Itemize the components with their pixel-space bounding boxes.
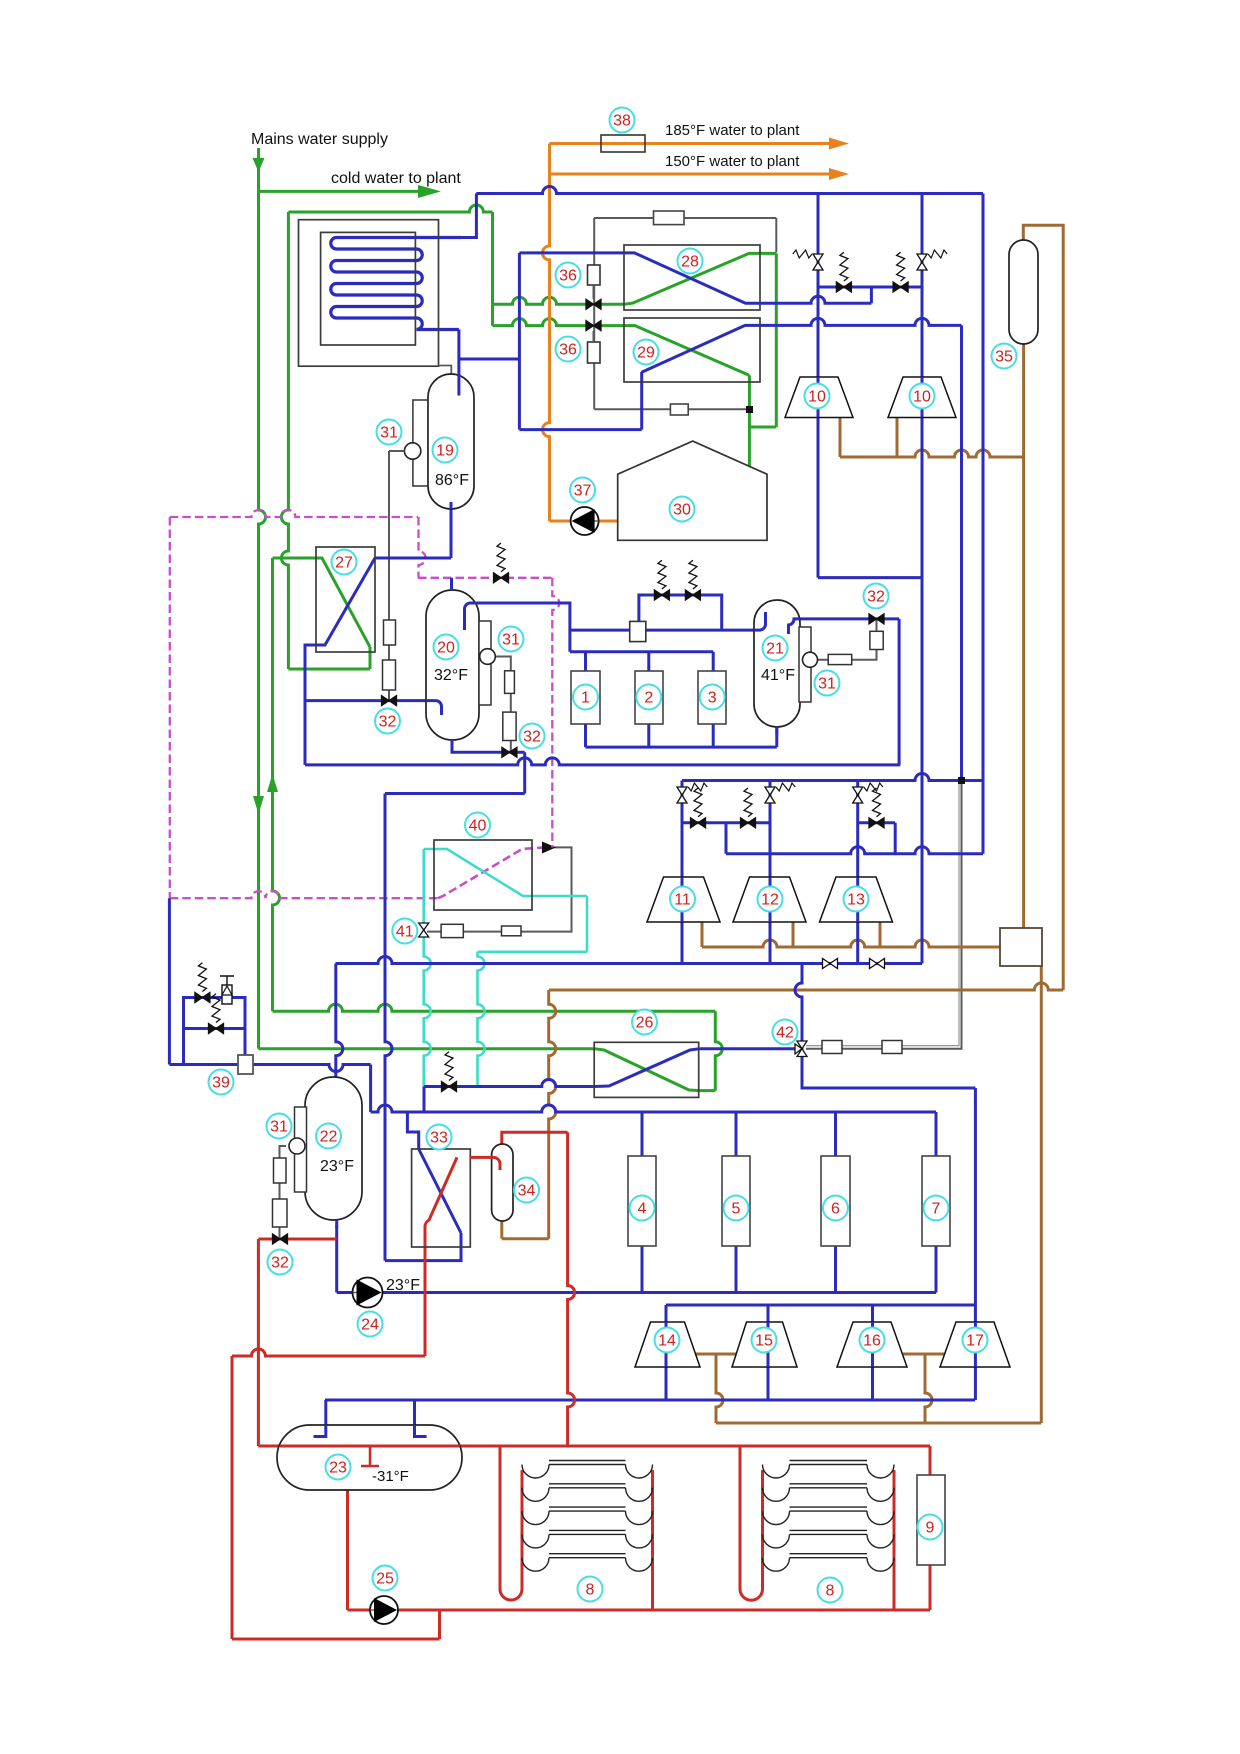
sensor train vessel22 rect2 bbox=[273, 1199, 288, 1227]
control line from junction 40 to valve 41 bbox=[427, 847, 572, 931]
svg-text:Mains water supply: Mains water supply bbox=[251, 131, 388, 148]
label 8b bbox=[818, 1578, 843, 1603]
black junction dot gray/green bbox=[746, 406, 753, 413]
sensor capillary vessel 22 bbox=[280, 1146, 287, 1238]
wire cold water to plant arrow line bbox=[259, 190, 421, 193]
label 35 bbox=[992, 344, 1017, 369]
wire red coil 8b supply leg + U bbox=[740, 1446, 763, 1600]
svg-text:cold water to plant: cold water to plant bbox=[331, 170, 461, 187]
valve42 resistor 2 bbox=[882, 1041, 902, 1054]
valve 32d vessel22 expansion bbox=[273, 1234, 288, 1244]
resistor on gray top loop bbox=[654, 211, 685, 225]
wire orange pump37 to tank 30 bbox=[599, 520, 620, 523]
vessel 19 thermowell + sensor 31 bbox=[413, 400, 428, 486]
vessel 22 thermowell + sensor 31 bbox=[295, 1107, 307, 1192]
wire blue bypass branch 11-12 bbox=[682, 821, 770, 824]
wire blue vessel20 top to magenta tee bbox=[450, 578, 453, 589]
vessel 34 bbox=[492, 1144, 513, 1221]
HX 27 green diagonal bbox=[274, 558, 370, 647]
wire brown drop to vessel 34 bbox=[549, 990, 556, 1239]
svg-text:9: 9 bbox=[926, 1520, 935, 1537]
wire green supply to valves 36 bbox=[491, 212, 494, 326]
wire blue liquid to HX26 y1086 bbox=[424, 1080, 594, 1087]
vessel 23 internal stubs bbox=[314, 1425, 326, 1437]
wire blue vessel 19 to HX27 bbox=[450, 502, 453, 558]
svg-text:15: 15 bbox=[755, 1333, 773, 1350]
HX 29 blue diagonal bbox=[641, 325, 760, 372]
wire red coil 8a outlet riser bbox=[651, 1470, 654, 1610]
svg-text:12: 12 bbox=[761, 892, 779, 909]
svg-text:8: 8 bbox=[586, 1582, 595, 1599]
HX 33 red diagonal bbox=[425, 1157, 457, 1247]
mains supply arrow mid bbox=[253, 796, 264, 814]
wire orange 150F line bbox=[550, 173, 831, 176]
wire blue comp 14-17 bottom header bbox=[665, 1367, 668, 1400]
evaporator column 1 bbox=[571, 671, 600, 724]
wire blue branch to expansion valve 32a bbox=[305, 699, 427, 702]
label 31 vessel22 bbox=[267, 1114, 292, 1139]
wire green from HX28 down to tank 30 bbox=[775, 253, 778, 427]
svg-text:6: 6 bbox=[831, 1201, 840, 1218]
label 14 bbox=[655, 1328, 680, 1353]
orange arrow 185F bbox=[829, 138, 849, 150]
wire blue HX27 outlet down to suction bus bbox=[305, 645, 316, 765]
svg-text:41°F: 41°F bbox=[761, 667, 795, 684]
wire brown compressor 10 discharge header bbox=[839, 418, 842, 458]
HX 28 blue diagonal bbox=[624, 253, 760, 303]
wire brown accumulator 35 top loop bbox=[1023, 225, 1063, 990]
wire blue hot-gas line y963.5 vessel22 to x922 bbox=[336, 957, 923, 964]
HX 27 blue diagonal bbox=[316, 558, 375, 645]
label 22 bbox=[316, 1124, 341, 1149]
wire magenta dashed left vertical bbox=[169, 517, 171, 898]
label 30 bbox=[670, 497, 695, 522]
wire red pump25 suction from vessel 23 bbox=[346, 1490, 349, 1610]
wire magenta dashed header y517 bbox=[170, 510, 418, 517]
svg-text:7: 7 bbox=[932, 1201, 941, 1218]
wire blue suction header 11-13 y780 bbox=[682, 774, 983, 781]
resistor on gray bottom loop bbox=[670, 404, 688, 415]
sensor capillary vessel 21 to valve 32 bbox=[817, 620, 877, 660]
label 9 bbox=[918, 1515, 943, 1540]
label 38 bbox=[610, 108, 635, 133]
sensor train vessel22 rect1 bbox=[274, 1158, 287, 1183]
wire red coil 8b outlet riser bbox=[893, 1470, 896, 1610]
svg-text:32: 32 bbox=[379, 714, 397, 731]
wire red pump25 discharge bus y1610 bbox=[398, 1609, 930, 1612]
bypass valves y822 bbox=[691, 818, 706, 828]
wire magenta dashed drop x552 bbox=[552, 578, 559, 848]
wire blue right riser x961 bbox=[960, 325, 963, 780]
label 42 bbox=[773, 1020, 798, 1045]
pump 37 bbox=[571, 507, 599, 535]
svg-text:13: 13 bbox=[847, 892, 865, 909]
wire red coil supply line y1446 bbox=[258, 1445, 930, 1448]
safety valve on riser 10b bbox=[917, 254, 927, 270]
hot gas valves y963 bbox=[823, 959, 838, 969]
wire blue coil exit to vessel 19 bbox=[457, 330, 460, 396]
wire turquoise left drop from HX40 bbox=[424, 849, 431, 1087]
svg-text:20: 20 bbox=[437, 640, 455, 657]
wire green heated water header y212 bbox=[288, 205, 492, 212]
wire green riser B to HX 27 bbox=[281, 212, 288, 669]
svg-text:38: 38 bbox=[613, 113, 631, 130]
svg-text:24: 24 bbox=[361, 1317, 379, 1334]
valve 32a vessel19 train bbox=[382, 696, 397, 706]
heat exchanger box 27 bbox=[316, 547, 375, 652]
svg-text:19: 19 bbox=[436, 443, 454, 460]
label 19 bbox=[433, 438, 458, 463]
svg-text:31: 31 bbox=[818, 676, 836, 693]
wire brown long header y990 bbox=[549, 983, 1063, 990]
label 11 bbox=[670, 887, 695, 912]
wire blue vessel 23 suction stubs bbox=[324, 1400, 327, 1425]
vessel 20 dip tubes bbox=[450, 578, 453, 590]
relief valve y1086 bbox=[442, 1082, 457, 1092]
brown junction box bbox=[1000, 928, 1042, 966]
svg-text:2: 2 bbox=[644, 690, 653, 707]
label 26 bbox=[632, 1010, 657, 1035]
svg-text:32: 32 bbox=[271, 1255, 289, 1272]
compressor 10a bbox=[785, 377, 853, 418]
heat exchanger box 26 bbox=[594, 1042, 699, 1097]
label 4 bbox=[630, 1196, 655, 1221]
wire blue compressor 11 riser bbox=[681, 781, 684, 964]
wire red coil 8a supply leg + U bbox=[500, 1446, 522, 1600]
vessel 20 thermowell + sensor 31 bbox=[479, 621, 491, 705]
svg-text:41: 41 bbox=[396, 924, 414, 941]
wire magenta dashed step down x418 bbox=[419, 517, 426, 578]
valve 32b vessel21 bbox=[869, 614, 884, 624]
wire orange riser to pump 37 bbox=[543, 144, 550, 522]
mains supply arrow top bbox=[253, 158, 265, 172]
wire blue suction bus y765 bbox=[305, 758, 900, 765]
svg-text:8: 8 bbox=[826, 1583, 835, 1600]
compressor 13 bbox=[820, 877, 893, 922]
HX 18 coil serpentine bbox=[331, 238, 461, 330]
relief valves vessel21 loop bbox=[654, 590, 669, 600]
label 20 bbox=[434, 635, 459, 660]
svg-text:3: 3 bbox=[708, 690, 717, 707]
svg-text:5: 5 bbox=[732, 1201, 741, 1218]
wire brown right riser to 14-17 header bbox=[1040, 966, 1043, 1423]
wire turquoise right loop from HX40 bbox=[586, 896, 589, 952]
vessel 23 (-31F) bbox=[277, 1425, 462, 1490]
wire blue valve 42 down branch bbox=[802, 1047, 975, 1088]
svg-text:21: 21 bbox=[766, 641, 784, 658]
valve 41 bbox=[419, 923, 429, 937]
svg-text:17: 17 bbox=[966, 1333, 984, 1350]
wire red vessel34 top to supply bbox=[502, 1132, 568, 1145]
valve 42 (three-way) bbox=[795, 1041, 807, 1057]
svg-text:36: 36 bbox=[559, 342, 577, 359]
vessel 21 (41F) bbox=[754, 600, 800, 727]
wire mains to HX26 y1048 bbox=[259, 1047, 595, 1050]
comp39 valve 2 bbox=[209, 1024, 224, 1034]
svg-text:34: 34 bbox=[518, 1183, 536, 1200]
svg-text:4: 4 bbox=[638, 1201, 647, 1218]
wire blue valve 42 riser bbox=[795, 964, 802, 1048]
vessel 22 (23F) bbox=[305, 1077, 362, 1220]
vessel 23 level symbol bbox=[361, 1446, 379, 1466]
svg-text:1: 1 bbox=[581, 690, 590, 707]
label 7 bbox=[924, 1196, 949, 1221]
wire green riser C down to HX 26 header bbox=[273, 558, 280, 1011]
valve 36b bbox=[586, 321, 601, 331]
redraw blue risers through compressors bbox=[817, 377, 820, 418]
HX 28 green diagonal bbox=[624, 253, 776, 304]
svg-text:22: 22 bbox=[320, 1129, 338, 1146]
HX 29 green diagonal bbox=[624, 326, 749, 376]
evaporator column 6 bbox=[821, 1156, 850, 1246]
pump 24 bbox=[353, 1278, 383, 1308]
component 39 pilot regulator bbox=[222, 985, 232, 1004]
valve 36a bbox=[586, 299, 601, 309]
wire blue evaporator bank 1-3 top header bbox=[570, 650, 713, 653]
wire blue bypass branch 13 bbox=[858, 821, 896, 824]
red line over vessel 23 bbox=[280, 1445, 460, 1448]
svg-text:31: 31 bbox=[502, 632, 520, 649]
svg-text:-31°F: -31°F bbox=[372, 1468, 409, 1485]
valve 36b actuator bbox=[588, 342, 601, 363]
wire blue HX26 outlet to valve 42 bbox=[700, 1047, 802, 1050]
compressor 11 bbox=[647, 877, 720, 922]
sensor train vessel21 resistor bbox=[828, 654, 852, 664]
wire blue vessel 21 right outlet w/ valve 32 bbox=[800, 617, 899, 620]
inline filter box 38 bbox=[601, 135, 645, 152]
safety valves on risers 11-13 bbox=[677, 787, 687, 803]
wire green from HX29 into tank 30 bbox=[748, 375, 751, 480]
svg-text:16: 16 bbox=[863, 1333, 881, 1350]
heat exchanger box 28 bbox=[624, 245, 760, 310]
svg-text:185°F water to plant: 185°F water to plant bbox=[665, 122, 800, 139]
label 25 bbox=[373, 1566, 398, 1591]
wire blue vessel20 bottom outlet w/ valve 32 bbox=[452, 740, 525, 752]
bypass valve b y287 bbox=[893, 282, 908, 292]
label 1 bbox=[573, 685, 598, 710]
svg-text:40: 40 bbox=[469, 818, 487, 835]
vessel 21 dip tubes bbox=[754, 612, 766, 630]
HX 18 outer box bbox=[299, 220, 439, 367]
wire brown compressor 14-17 discharge bbox=[694, 1353, 737, 1356]
wire blue comp 14-17 top header bbox=[666, 1304, 975, 1307]
control line from valve 42 to suction header bbox=[806, 781, 962, 1049]
svg-text:39: 39 bbox=[212, 1075, 230, 1092]
label 8a bbox=[578, 1577, 603, 1602]
vessel 21 thermowell + sensor 31 bbox=[799, 627, 811, 702]
label 10b bbox=[910, 384, 935, 409]
wire red bank B outer right leg through filter 9 bbox=[929, 1446, 932, 1610]
svg-text:31: 31 bbox=[380, 425, 398, 442]
evaporator coil 8b fins bbox=[763, 1465, 895, 1479]
label 2 bbox=[636, 685, 661, 710]
wire blue compressor 13 riser bbox=[856, 781, 859, 964]
label 40 bbox=[465, 813, 490, 838]
wire blue long drop x385 to HX33 bbox=[385, 794, 392, 1261]
svg-text:23°F: 23°F bbox=[386, 1277, 420, 1294]
wire blue pump24 discharge header y1292 bbox=[337, 1291, 936, 1294]
compressor 16 bbox=[837, 1322, 907, 1367]
pump 25 bbox=[370, 1596, 398, 1624]
wire blue HX33 outlet loop bbox=[385, 1233, 461, 1261]
valve 36a actuator bbox=[588, 265, 601, 285]
svg-text:23°F: 23°F bbox=[320, 1158, 354, 1175]
label 33 bbox=[427, 1125, 452, 1150]
safety valve on riser 10a bbox=[813, 254, 823, 270]
gray link HX18 to vessel 19 bbox=[439, 366, 452, 375]
wire blue vessel20 top outlet to vessel21 bbox=[478, 603, 570, 652]
svg-text:32: 32 bbox=[523, 729, 541, 746]
wire blue compressor 10a riser bbox=[817, 194, 820, 578]
wire red drop from HX33 to pump24 loop bbox=[424, 1247, 427, 1356]
wire blue HX29 outlet to right riser bbox=[760, 318, 962, 325]
valve42 resistor 1 bbox=[822, 1041, 842, 1054]
svg-text:14: 14 bbox=[658, 1333, 676, 1350]
label 3 bbox=[700, 685, 725, 710]
svg-text:42: 42 bbox=[776, 1025, 794, 1042]
label 31 vessel20 bbox=[499, 627, 524, 652]
sensor train vessel20 rect2 bbox=[503, 712, 516, 740]
label 10a bbox=[805, 384, 830, 409]
svg-text:11: 11 bbox=[674, 892, 691, 909]
wire blue 10a to 10b link y577 bbox=[818, 576, 922, 579]
valve41 resistor 2 bbox=[502, 926, 522, 936]
svg-text:26: 26 bbox=[636, 1015, 654, 1032]
relief bypass loop above filter bbox=[639, 595, 722, 630]
evaporator column 4 bbox=[628, 1156, 656, 1246]
label 21 bbox=[763, 636, 788, 661]
wire magenta dashed bottom horizontal to HX40 bbox=[170, 891, 438, 898]
label 17 bbox=[963, 1328, 988, 1353]
wire blue evaporator bank 4-7 stubs bbox=[641, 1112, 644, 1156]
svg-text:32°F: 32°F bbox=[434, 667, 468, 684]
heat exchanger box 29 bbox=[624, 318, 760, 382]
gray control loop around HX 28/29 bbox=[594, 217, 776, 219]
svg-text:86°F: 86°F bbox=[435, 472, 469, 489]
label 5 bbox=[724, 1196, 749, 1221]
vessel 35 accumulator bbox=[1009, 240, 1038, 344]
label 37 bbox=[570, 478, 595, 503]
wire blue drop into HX18 coil bbox=[461, 194, 476, 238]
svg-text:36: 36 bbox=[559, 268, 577, 285]
compressor 12 bbox=[733, 877, 806, 922]
filter on vessel21 feed bbox=[630, 621, 646, 641]
label 16 bbox=[860, 1328, 885, 1353]
wire blue bypass header y853.7 bbox=[726, 847, 983, 854]
svg-text:28: 28 bbox=[681, 254, 699, 271]
heat exchanger box 40 bbox=[434, 840, 532, 910]
magenta arrow into control junction bbox=[542, 842, 556, 854]
component 39 box bbox=[238, 1055, 253, 1074]
wire brown accumulator 35 bottom riser bbox=[1022, 344, 1025, 928]
wire mains water supply vertical bbox=[259, 148, 266, 1049]
HX 40 magenta diagonal bbox=[438, 847, 544, 898]
svg-text:10: 10 bbox=[808, 389, 826, 406]
wire blue compressor 12 riser bbox=[769, 781, 772, 964]
label 41 bbox=[392, 919, 417, 944]
wire orange 185F line bbox=[550, 142, 831, 145]
label 32 vessel21 bbox=[864, 584, 889, 609]
svg-text:27: 27 bbox=[335, 555, 353, 572]
sensor train vessel20 rect1 bbox=[505, 671, 515, 694]
expansion valve on magenta line bbox=[494, 573, 509, 583]
HX 26 green diagonal bbox=[594, 1049, 700, 1091]
HX 18 inner box bbox=[321, 232, 416, 345]
svg-text:37: 37 bbox=[574, 483, 592, 500]
label 28 bbox=[678, 249, 703, 274]
wire blue vessel22 bottom to pump24 bbox=[335, 1225, 338, 1293]
sensor train vessel21 actuator bbox=[870, 631, 883, 649]
label 32 vessel19 train bbox=[375, 709, 400, 734]
svg-text:30: 30 bbox=[673, 502, 691, 519]
label 6 bbox=[823, 1196, 848, 1221]
HX 40 turquoise diagonal bbox=[424, 849, 587, 896]
svg-text:31: 31 bbox=[270, 1119, 288, 1136]
bypass valve a y287 bbox=[836, 282, 851, 292]
valve 32c vessel20 train bbox=[502, 747, 517, 757]
tank 30 body bbox=[618, 441, 767, 540]
svg-text:29: 29 bbox=[637, 345, 655, 362]
valve41 resistor 1 bbox=[441, 924, 463, 937]
evaporator column 7 bbox=[922, 1156, 950, 1246]
svg-text:35: 35 bbox=[995, 349, 1013, 366]
label 23 bbox=[326, 1455, 351, 1480]
green up arrow on riser C bbox=[267, 774, 278, 792]
label 15 bbox=[752, 1328, 777, 1353]
label 39 bbox=[209, 1070, 234, 1095]
evaporator column 2 bbox=[635, 671, 663, 724]
label 29 bbox=[634, 340, 659, 365]
compressor 15 bbox=[732, 1322, 797, 1367]
sensor train vessel19 rect1 bbox=[384, 620, 396, 645]
wire blue liquid line from comp39 to vessel22/HX33 bbox=[168, 898, 171, 1064]
label 13 bbox=[844, 887, 869, 912]
sensor capillary vessel 20 bbox=[494, 657, 511, 753]
label 12 bbox=[758, 887, 783, 912]
heat exchanger box 33 bbox=[412, 1149, 471, 1247]
sensor train vessel19 rect2 bbox=[383, 660, 396, 690]
label 24 bbox=[358, 1312, 383, 1337]
filter drier 9 bbox=[917, 1475, 945, 1565]
wire green header y1011 back to riser C bbox=[273, 1004, 716, 1011]
compressor 14 bbox=[635, 1322, 700, 1367]
evaporator column 5 bbox=[722, 1156, 750, 1246]
vessel 20 (32F) bbox=[426, 590, 479, 740]
black junction dot suction header bbox=[958, 777, 965, 784]
wire brown compressor 11-13 discharge header bbox=[701, 922, 704, 947]
wire magenta dashed hot gas line y578 bbox=[418, 577, 552, 579]
wire blue top header y193.5 bbox=[476, 187, 983, 194]
label 27 bbox=[332, 550, 357, 575]
wire blue right riser x983 bbox=[982, 194, 985, 854]
label 31 vessel19 bbox=[377, 420, 402, 445]
HX 33 blue diagonal bbox=[419, 1149, 461, 1233]
wire blue HX28 circuit left leg bbox=[518, 253, 521, 430]
wire blue HX29 inlet line bbox=[519, 428, 641, 431]
svg-text:150°F water to plant: 150°F water to plant bbox=[665, 153, 800, 170]
wire green HX26 right loop bbox=[700, 1089, 715, 1092]
svg-text:23: 23 bbox=[329, 1460, 347, 1477]
vessel 19 (86F) bbox=[428, 374, 474, 509]
label 32 vessel20 train bbox=[520, 724, 545, 749]
wire blue HX28 outlet to valves bbox=[760, 296, 871, 303]
svg-text:25: 25 bbox=[376, 1571, 394, 1588]
label 36a bbox=[556, 263, 581, 288]
evaporator column 3 bbox=[698, 671, 726, 724]
wire blue evaporator bank 1-3 bottom header bbox=[584, 724, 587, 747]
wire red expansion line from valve 32d bbox=[258, 1238, 336, 1241]
svg-text:32: 32 bbox=[867, 589, 885, 606]
